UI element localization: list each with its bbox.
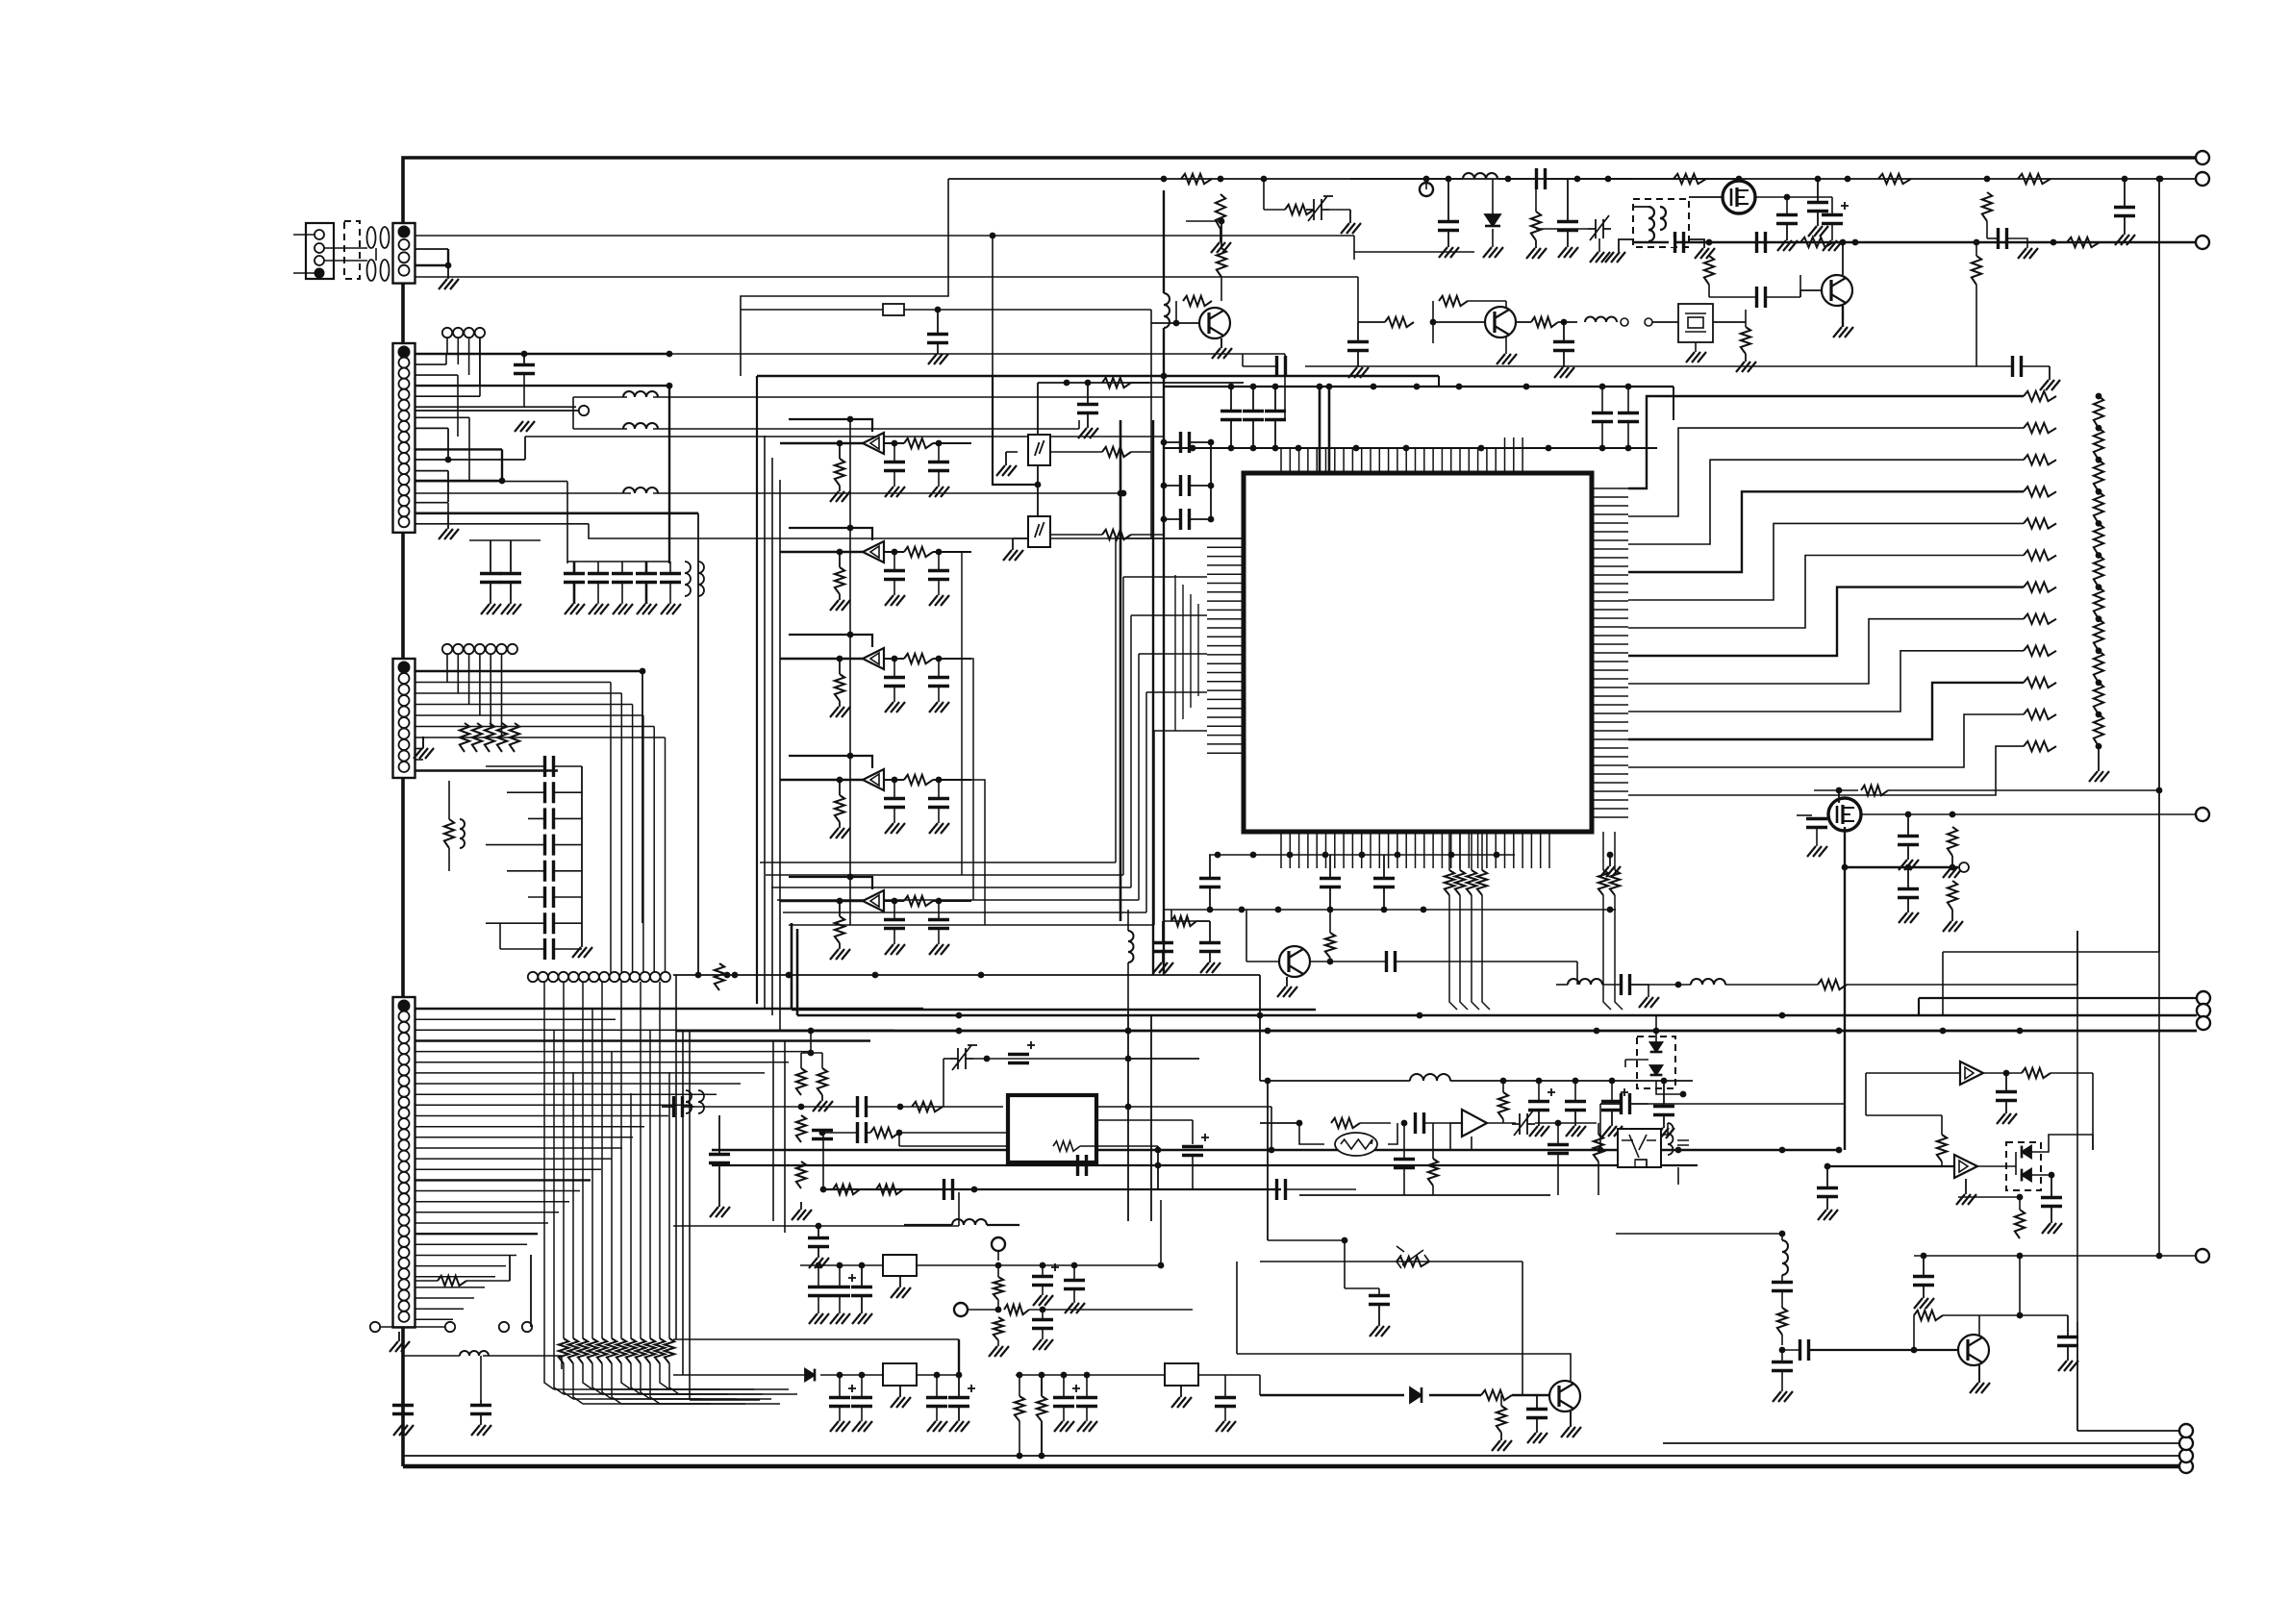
resistor R86: [796, 1068, 806, 1095]
winding L400: [381, 227, 390, 248]
ground: [852, 1421, 872, 1432]
ground: [1605, 252, 1625, 262]
junction: [1359, 852, 1366, 859]
resistor R109: [994, 1317, 1003, 1340]
wire: [501, 654, 503, 737]
pin U1 top: [1405, 448, 1407, 473]
wire: [415, 759, 424, 761]
wire: [1037, 383, 1039, 435]
resistor R36: [904, 775, 933, 785]
wire: [1050, 534, 1102, 536]
junction: [1500, 1078, 1507, 1085]
junction: [1478, 445, 1485, 452]
junction: [896, 1130, 903, 1137]
capacitor C22: [1152, 943, 1173, 952]
wire: [490, 540, 491, 573]
wire: [324, 247, 367, 249]
connector CN101 pins: [315, 230, 324, 239]
capacitor C96: [1032, 1277, 1053, 1286]
bus bundle tail: [650, 1398, 771, 1400]
wire: [2007, 238, 2027, 248]
wire: [468, 417, 470, 481]
junction: [1852, 239, 1859, 246]
wire: [893, 808, 895, 823]
ground: [1497, 354, 1517, 364]
wire: [1598, 1162, 1599, 1195]
junction: [2096, 552, 2102, 559]
terminal J12: [2197, 1016, 2210, 1030]
junction: [837, 898, 843, 905]
pin U1 bottom: [1513, 832, 1515, 868]
resistor R111: [1015, 1396, 1024, 1421]
junction: [1125, 1028, 1132, 1035]
net P2-14: [415, 492, 632, 494]
ground: [1899, 860, 1919, 870]
bus pack: [766, 874, 1123, 876]
pin U1 left: [1207, 600, 1244, 602]
wire: [510, 583, 512, 604]
wire: [1447, 179, 1449, 222]
net ANT2 drop: [1357, 277, 1359, 322]
net P2-6b: [415, 410, 579, 412]
wire: [1209, 855, 1211, 879]
ground: [2115, 235, 2135, 245]
pin U1 bottom: [1361, 832, 1363, 868]
net P2-14b: [653, 492, 1123, 494]
junction: [1161, 439, 1168, 446]
wire: [1190, 485, 1211, 487]
ground: [929, 944, 949, 955]
pin U1 right: [1592, 799, 1628, 801]
wire: [800, 1202, 802, 1210]
bus col 803: [771, 458, 773, 1015]
pin U1 left: [1207, 636, 1244, 637]
wire: [1220, 338, 1222, 348]
junction: [1353, 445, 1360, 452]
bundle CN3: [642, 715, 644, 977]
wire: [415, 427, 449, 429]
pin U1 top: [1441, 448, 1443, 473]
junction: [2157, 176, 2164, 183]
ground: [852, 1313, 872, 1324]
junction: [847, 753, 854, 760]
wire: [839, 486, 841, 491]
wire: [1558, 321, 1577, 323]
terminal J5: [2179, 1424, 2193, 1437]
wire: [375, 248, 377, 261]
wire: [2005, 1073, 2007, 1092]
wire: [1073, 1265, 1075, 1280]
wire: [839, 1375, 841, 1397]
resistor R70: [2024, 550, 2056, 560]
wire: [1357, 322, 1359, 342]
resonator X1: [1335, 1133, 1377, 1156]
ground: [1200, 962, 1220, 973]
pin U1 right: [1592, 678, 1628, 680]
pin U1 top: [1388, 448, 1390, 473]
wire: [1396, 961, 1577, 962]
pin U1 top: [1397, 448, 1398, 473]
resistor R54: [1102, 447, 1131, 457]
wire: [402, 1414, 404, 1426]
capacitor C12: [545, 835, 554, 856]
pin U1 left: [1207, 698, 1244, 700]
wire: [1522, 1262, 1523, 1395]
resistor R83: [1861, 786, 1888, 795]
wire: [884, 551, 904, 553]
pin U1 bottom: [1495, 832, 1497, 868]
wire: [1037, 465, 1039, 485]
capacitor C59: [1553, 342, 1574, 351]
junction: [1084, 1372, 1091, 1379]
junction: [1257, 1012, 1264, 1019]
wire: [1627, 422, 1629, 448]
wire: [1080, 1145, 1158, 1147]
ground: [885, 702, 905, 712]
wire: [791, 923, 793, 1010]
resistor R42: [1531, 212, 1541, 240]
net bufin: [780, 551, 863, 553]
wire: [1557, 1154, 1559, 1195]
capacitor C20: [1320, 879, 1341, 887]
wire: [1353, 252, 1355, 260]
wire: [1087, 1164, 1158, 1166]
junction: [1546, 445, 1552, 452]
resistor R80: [2024, 710, 2056, 719]
junction: [2096, 457, 2102, 463]
wire: [1481, 1080, 1693, 1082]
terminal J8: [2196, 236, 2209, 249]
junction: [445, 262, 452, 269]
wire: [1745, 354, 1747, 362]
pin U1 top: [1289, 448, 1291, 473]
rail 1393: [673, 1338, 959, 1340]
wire: [415, 1083, 742, 1085]
wire: [415, 1093, 717, 1095]
capacitor C3: [588, 574, 609, 583]
wire: [1907, 845, 1909, 861]
bundle CN3: [620, 693, 622, 977]
resistor R56: [1439, 296, 1468, 306]
pin U1 bottom: [1468, 832, 1470, 868]
wire: [1260, 1122, 1299, 1124]
resistor R79: [2094, 683, 2103, 714]
wire: [1329, 910, 1331, 933]
net P2-17b: [589, 524, 1256, 538]
junction: [1403, 445, 1410, 452]
junction: [1265, 1028, 1271, 1035]
wire: [415, 363, 447, 365]
diode D4: [2022, 1169, 2031, 1182]
capacitor C73: [709, 1155, 730, 1163]
ground: [885, 823, 905, 834]
wire: [1186, 220, 1221, 222]
wire: [973, 1058, 1199, 1060]
net to IC: [1146, 691, 1207, 693]
resistor R106: [2022, 1068, 2051, 1078]
junction: [984, 1056, 991, 1062]
bus bundle tail: [592, 1388, 719, 1390]
wire: [822, 1133, 824, 1189]
net ladder: [1628, 619, 2024, 684]
wire: [1512, 1394, 1549, 1396]
resistor R6: [444, 819, 454, 848]
wire: [2031, 1135, 2093, 1152]
resistor R62: [2024, 423, 2056, 433]
wire: [943, 1059, 944, 1107]
wire: [1433, 321, 1485, 323]
junction: [1680, 1091, 1687, 1098]
pin U1 top: [1468, 448, 1470, 473]
wire: [415, 395, 481, 397]
wire: [2019, 1256, 2021, 1315]
wire: [839, 943, 841, 949]
wire: [669, 562, 671, 573]
ground: [891, 1397, 911, 1408]
wire: [1826, 1197, 1828, 1211]
wire: [415, 1062, 790, 1063]
wire: [1243, 365, 1276, 367]
wire: [1500, 1395, 1502, 1406]
wire: [690, 1399, 760, 1401]
pin U1 top: [1361, 448, 1363, 473]
bus bundle tail: [573, 1398, 702, 1400]
ground: [929, 487, 949, 497]
diode D5: [1650, 1042, 1663, 1052]
transistor Q1: [1279, 946, 1310, 977]
wire: [893, 552, 895, 570]
bus bundle tail: [660, 1403, 780, 1405]
wire: [933, 551, 971, 553]
wire: [993, 376, 1038, 485]
pin U1 left: [1207, 618, 1244, 620]
ground: [572, 947, 592, 958]
ground: [589, 604, 609, 614]
wire: [958, 1407, 960, 1421]
wire: [1492, 179, 1494, 214]
bundle CN3: [653, 727, 655, 978]
bus bundle b: [650, 1363, 660, 1404]
pin U1 right: [1592, 712, 1628, 714]
wire: [1781, 1371, 1783, 1391]
junction: [936, 777, 943, 784]
wire: [1438, 376, 1440, 387]
junction: [1250, 852, 1257, 859]
capacitor C88: [1996, 1092, 2017, 1101]
wire: [1817, 212, 1819, 227]
pin U1 right: [1592, 565, 1628, 567]
wire: [1008, 1164, 1077, 1166]
top bus 2: [948, 178, 2196, 180]
wire: [1378, 1288, 1380, 1295]
wire: [1745, 322, 1747, 327]
wire: [1630, 984, 1691, 986]
wire: [415, 1233, 539, 1235]
regulator U4: [883, 1255, 917, 1276]
junction: [1017, 1453, 1023, 1460]
bundle CN3: [632, 705, 634, 978]
junction: [2096, 488, 2102, 495]
ground: [1686, 352, 1706, 362]
buffer U7: [1954, 1155, 1977, 1178]
switch S1: [1028, 435, 1050, 465]
ground: [661, 604, 681, 614]
bus H1056: [797, 1014, 2197, 1017]
junction: [521, 351, 528, 358]
bus pack: [777, 899, 1139, 901]
wire: [1087, 383, 1089, 405]
wire: [402, 1356, 404, 1400]
ground: [1065, 1303, 1085, 1313]
ground: [949, 1421, 969, 1432]
junction: [2156, 787, 2163, 794]
ground: [1566, 1126, 1586, 1137]
wire: [2019, 1197, 2021, 1210]
net P2-6: [415, 406, 577, 408]
pin U1 left: [1207, 645, 1244, 647]
junction: [1326, 384, 1333, 390]
bus bundle b: [612, 1363, 621, 1404]
wire: [997, 1251, 999, 1261]
wire: [1286, 1188, 1356, 1190]
wire: [1180, 1386, 1182, 1397]
wire: [1599, 1104, 1601, 1150]
ground: [1600, 866, 1621, 877]
ground: [2058, 1361, 2078, 1371]
net L-row2b: [653, 428, 1079, 430]
bus bundle: [563, 982, 565, 1338]
inductor L9: [1463, 173, 1497, 179]
resistor R107: [1937, 1135, 1947, 1162]
resistor R13: [617, 1338, 626, 1363]
wire: [1865, 1073, 1867, 1115]
resistor R96: [1498, 1092, 1508, 1119]
capacitor C80: [1548, 1145, 1569, 1154]
resistor R35: [835, 795, 844, 822]
resistor R29: [835, 459, 844, 486]
wire: [1781, 1335, 1783, 1345]
wire: [415, 1029, 895, 1031]
junction: [1158, 1262, 1165, 1269]
ground: [1914, 1298, 1934, 1309]
bus bundle: [659, 982, 661, 1338]
wire: [1598, 238, 1600, 252]
ground: [2089, 771, 2109, 782]
wire: [466, 1280, 510, 1282]
wire: [1050, 451, 1102, 453]
bus under U2: [823, 1188, 1281, 1190]
pin U1 left: [1207, 725, 1244, 727]
capacitor C33: [928, 799, 949, 808]
capacitor C71: [1277, 1179, 1286, 1200]
bus buffer column: [849, 419, 851, 925]
junction: [837, 1262, 843, 1269]
wire: [938, 580, 940, 595]
wire: [839, 659, 841, 674]
terminal J9: [2196, 808, 2209, 821]
net to IC: [1123, 576, 1207, 578]
wire: [1673, 387, 1674, 420]
pin U1 right: [1592, 505, 1628, 507]
wire: [1145, 692, 1147, 912]
wire: [938, 929, 940, 944]
bus V1199: [1152, 420, 1154, 975]
capacitor C38: [1557, 222, 1578, 231]
wire: [597, 562, 599, 573]
junction: [1296, 1120, 1303, 1127]
wire: [1941, 1162, 1943, 1166]
wire: [2092, 1073, 2094, 1150]
wire: [1608, 178, 1739, 180]
pin U1 left: [1207, 681, 1244, 683]
wire: [1041, 1375, 1043, 1396]
junction: [1984, 176, 1991, 183]
pin U1 top: [1522, 437, 1523, 473]
variable resistor VR1: [1397, 1255, 1429, 1268]
wire: [446, 654, 448, 683]
wire: [1383, 887, 1385, 911]
net P2-16: [415, 512, 699, 514]
rail 1275: [673, 1225, 959, 1227]
diode D6: [1650, 1065, 1663, 1075]
pin U1 top: [1325, 448, 1327, 473]
wire: [839, 443, 841, 459]
wire: [523, 354, 525, 365]
capacitor C50: [1077, 405, 1098, 413]
ground: [2018, 248, 2038, 259]
ground: [1833, 327, 1853, 337]
trimmer capacitor CT2: [1588, 215, 1611, 240]
wire: [958, 1192, 960, 1226]
ground: [1033, 1295, 1053, 1306]
wire: [820, 1374, 883, 1376]
ground: [928, 354, 948, 364]
terminal J15: [954, 1303, 968, 1316]
wire: [1190, 518, 1211, 520]
junction: [1035, 482, 1042, 488]
wire: [1151, 322, 1199, 324]
ground: [471, 1425, 491, 1436]
wire: [447, 503, 449, 515]
pin U1 left: [1207, 591, 1244, 593]
bottom bus 2: [403, 1455, 2179, 1457]
wire: [1230, 420, 1232, 448]
pin U1 top: [1486, 448, 1488, 473]
wire: [1689, 196, 1723, 198]
wire: [1827, 1165, 1954, 1167]
wire: [1907, 814, 1909, 837]
wire: [415, 1137, 634, 1138]
wire: [1546, 178, 1632, 180]
capacitor C7: [480, 574, 501, 583]
bottom bus 4: [2077, 1430, 2179, 1432]
buffer U5: [863, 890, 884, 912]
ground: [1078, 428, 1098, 438]
junction: [816, 1223, 822, 1230]
capacitor C10: [545, 782, 554, 803]
net drop: [1614, 832, 1616, 870]
wire: [1150, 1015, 1152, 1221]
wire: [554, 896, 582, 898]
pin U1 top: [1351, 448, 1353, 473]
capacitor C98: [1032, 1320, 1053, 1329]
capacitor C89: [1817, 1188, 1838, 1197]
terminal J3: [2179, 1449, 2193, 1462]
junction: [1118, 490, 1124, 497]
terminal J7: [1420, 183, 1433, 196]
pin U1 right: [1592, 487, 1628, 489]
wire: [1781, 1291, 1783, 1308]
